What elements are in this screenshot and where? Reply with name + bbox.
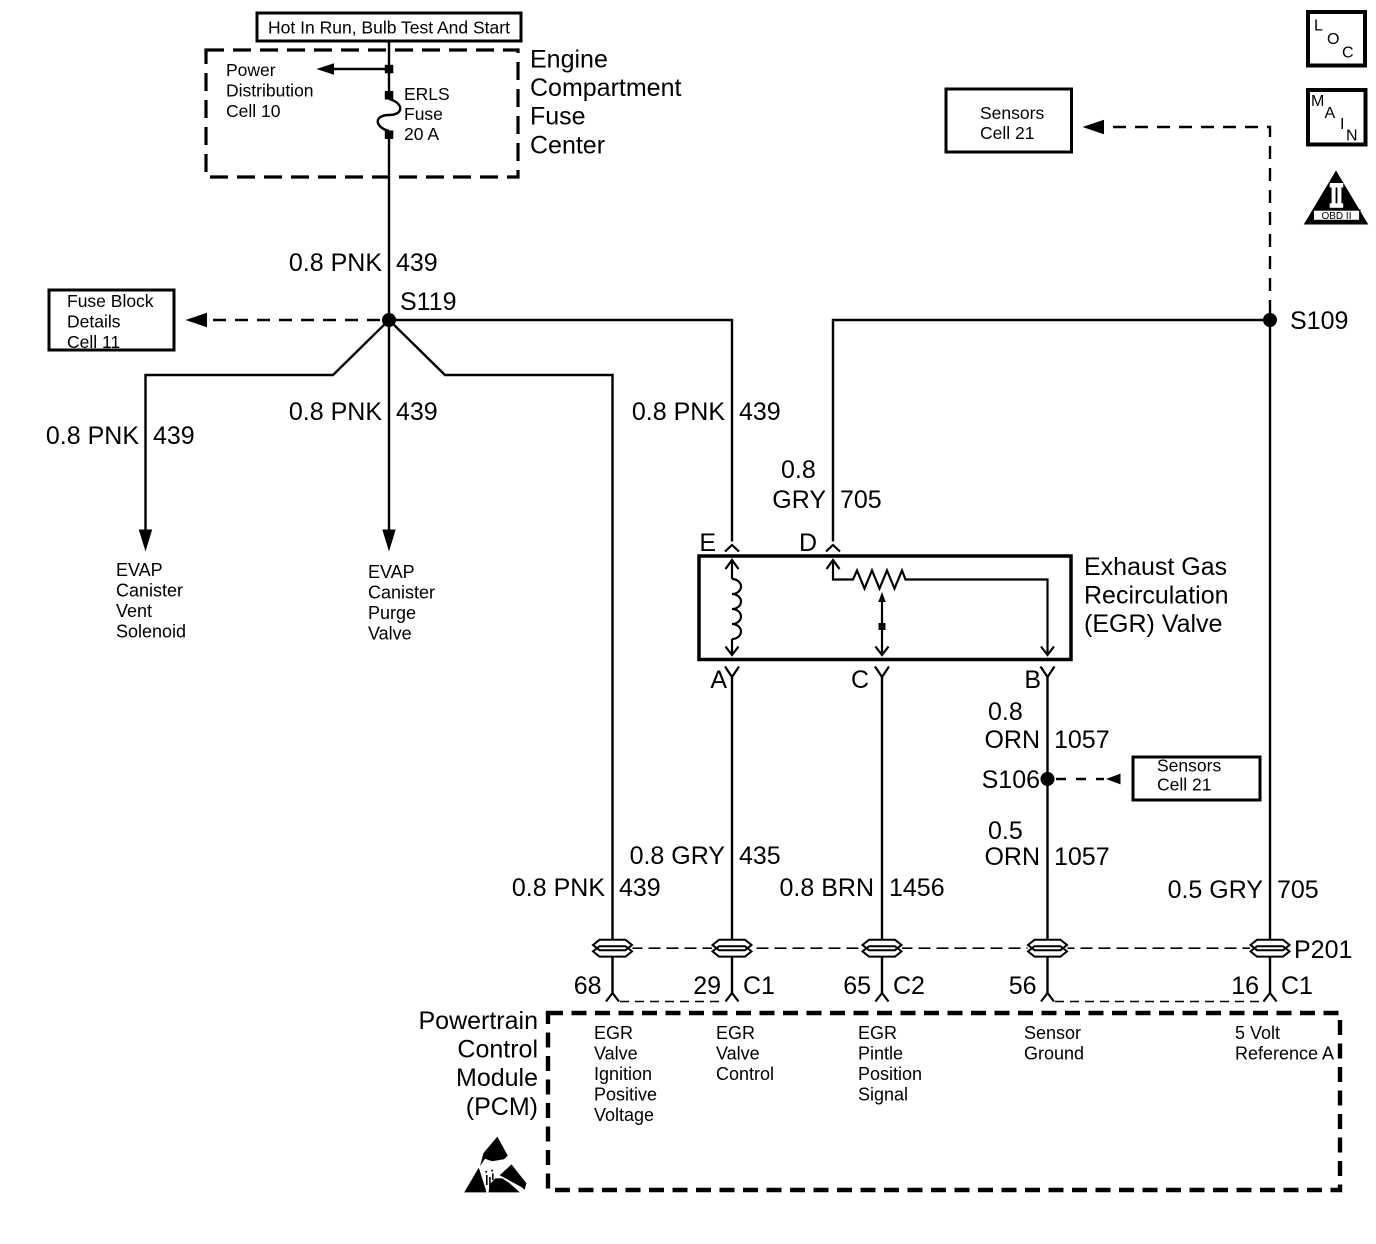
potentiometer pin D to B	[827, 560, 1055, 655]
wire label 0.8 PNK 439 (pin E wire)	[632, 398, 781, 426]
svg-text:0.5: 0.5	[988, 817, 1023, 845]
node S109	[1263, 307, 1348, 335]
wire label 0.8 GRY 435	[630, 842, 781, 870]
svg-text:EVAPCanisterVentSolenoid: EVAPCanisterVentSolenoid	[116, 560, 186, 642]
svg-text:ERLSFuse20 A: ERLSFuse20 A	[404, 84, 450, 144]
svg-text:S119: S119	[400, 288, 457, 316]
LOC symbol	[1308, 12, 1365, 66]
node S106	[982, 766, 1055, 794]
svg-text:29: 29	[693, 972, 721, 1000]
dashed reference arrow S106 to sensors cell 21	[1056, 774, 1121, 785]
wire label 0.8 PNK 439 (above S119)	[289, 249, 438, 277]
EGR valve box	[699, 556, 1071, 660]
wire EGR B to PCM pin 56	[1046, 677, 1048, 993]
svg-text:439: 439	[396, 398, 438, 426]
svg-text:439: 439	[739, 398, 781, 426]
svg-text:A: A	[1325, 105, 1336, 122]
svg-text:439: 439	[153, 422, 195, 450]
EGR pin E connector chevron	[725, 545, 739, 552]
svg-text:D: D	[799, 529, 817, 557]
wire S109 to EGR pin D	[833, 320, 1270, 542]
wire S119 to EGR pin E	[389, 320, 732, 542]
fuse block details cell 11 box	[49, 290, 174, 352]
svg-text:0.8 PNK: 0.8 PNK	[289, 398, 382, 426]
svg-text:S109: S109	[1290, 307, 1348, 335]
wire label 0.8 PNK 439 (below S119)	[289, 398, 438, 426]
svg-text:0.8 PNK: 0.8 PNK	[46, 422, 139, 450]
P201 grommet pin 56	[1028, 940, 1068, 957]
svg-text:0.8 PNK: 0.8 PNK	[632, 398, 725, 426]
svg-text:439: 439	[619, 874, 661, 902]
svg-text:Fuse BlockDetailsCell 11: Fuse BlockDetailsCell 11	[67, 291, 154, 352]
svg-text:B: B	[1024, 666, 1041, 694]
PCM pin 68 chevron	[606, 993, 619, 1002]
svg-text:EngineCompartmentFuseCenter: EngineCompartmentFuseCenter	[530, 46, 681, 160]
svg-text:705: 705	[840, 486, 882, 514]
EGR pin A connector Y	[725, 667, 739, 678]
EGR pin D connector chevron	[826, 545, 840, 552]
svg-text:SensorsCell 21: SensorsCell 21	[980, 103, 1044, 143]
hot feed label box	[257, 13, 521, 41]
svg-text:M: M	[1311, 93, 1324, 110]
svg-text:EVAPCanisterPurgeValve: EVAPCanisterPurgeValve	[368, 562, 435, 644]
svg-text:Exhaust GasRecirculation(EGR): Exhaust GasRecirculation(EGR) Valve	[1084, 553, 1229, 638]
P201 grommet pin 65	[862, 940, 902, 957]
svg-text:0.8: 0.8	[988, 698, 1023, 726]
P201 connector dashed tie line	[613, 947, 1271, 949]
svg-text:0.8 PNK: 0.8 PNK	[512, 874, 605, 902]
svg-text:435: 435	[739, 842, 781, 870]
engine compartment fuse center dashed box	[206, 50, 518, 177]
wire label 0.8 PNK 439 (pin 68 branch)	[512, 874, 661, 902]
sensors cell 21 box (lower)	[1133, 756, 1260, 801]
wire label 0.8 PNK 439 (left branch)	[46, 422, 195, 450]
wire S109 down to PCM pin 16	[1269, 320, 1271, 993]
fuse ERLS 20A	[378, 91, 401, 139]
PCM dashed box	[548, 1013, 1340, 1190]
svg-text:SensorGround: SensorGround	[1024, 1023, 1084, 1064]
svg-text:OBD II: OBD II	[1321, 211, 1351, 222]
svg-text:0.8: 0.8	[781, 456, 816, 484]
PCM pin 56 chevron	[1041, 993, 1054, 1002]
wire S119 down to EVAP purge valve	[382, 320, 395, 552]
dashed reference arrow S119 to fuse block details	[186, 313, 381, 328]
wire from hot feed into fuse box	[388, 41, 390, 91]
wire S119 branch to EVAP vent solenoid	[139, 320, 389, 552]
wire EGR C to PCM pin 65	[881, 677, 883, 993]
wire label 0.5 ORN 1057	[984, 817, 1109, 871]
solenoid winding pin E to A	[726, 560, 742, 655]
svg-text:GRY: GRY	[772, 486, 826, 514]
pintle position wiper pin C	[876, 592, 889, 655]
svg-text:C: C	[851, 666, 869, 694]
dashed tie pin 56 to 16 (connector C1)	[1055, 1001, 1262, 1003]
svg-text:68: 68	[574, 972, 602, 1000]
svg-text:S106: S106	[982, 766, 1040, 794]
svg-text:439: 439	[396, 249, 438, 277]
svg-text:0.5 GRY: 0.5 GRY	[1168, 876, 1264, 904]
OBD II symbol	[1304, 171, 1369, 225]
svg-text:ORN: ORN	[984, 843, 1040, 871]
node S119	[382, 288, 457, 327]
svg-text:P201: P201	[1294, 936, 1352, 964]
svg-text:I: I	[1340, 116, 1344, 133]
dashed reference wire S109 to sensors cell 21	[1083, 120, 1271, 313]
svg-text:16: 16	[1231, 972, 1259, 1000]
svg-text:56: 56	[1009, 972, 1037, 1000]
P201 grommet pin 29	[712, 940, 752, 957]
wire fuse to S119	[388, 139, 390, 320]
svg-text:C1: C1	[743, 972, 775, 1000]
svg-text:EGRValveIgnitionPositiveVoltag: EGRValveIgnitionPositiveVoltage	[594, 1023, 657, 1125]
svg-text:C1: C1	[1281, 972, 1313, 1000]
svg-text:PowerDistributionCell 10: PowerDistributionCell 10	[226, 60, 314, 121]
PCM pin 16 chevron	[1264, 993, 1277, 1002]
svg-text:705: 705	[1277, 876, 1319, 904]
svg-text:E: E	[699, 529, 716, 557]
svg-text:A: A	[710, 666, 727, 694]
svg-text:EGRValveControl: EGRValveControl	[716, 1023, 774, 1084]
wire label 0.8 BRN 1456	[780, 874, 945, 902]
svg-text:0.8 PNK: 0.8 PNK	[289, 249, 382, 277]
sensors cell 21 box (top)	[946, 89, 1072, 152]
svg-text:65: 65	[843, 972, 871, 1000]
svg-text:N: N	[1346, 128, 1358, 145]
svg-text:C: C	[1342, 45, 1354, 62]
svg-text:L: L	[1314, 18, 1323, 35]
svg-text:PowertrainControlModule(PCM): PowertrainControlModule(PCM)	[419, 1007, 539, 1121]
MAIN symbol	[1308, 90, 1366, 145]
svg-text:1057: 1057	[1054, 726, 1110, 754]
EGR pin C connector Y	[875, 667, 889, 678]
svg-text:0.8 GRY: 0.8 GRY	[630, 842, 726, 870]
svg-text:ORN: ORN	[984, 726, 1040, 754]
svg-text:C2: C2	[893, 972, 925, 1000]
arrow to power distribution	[317, 63, 394, 74]
wire label 0.5 GRY 705	[1168, 876, 1319, 904]
svg-text:EGRPintlePositionSignal: EGRPintlePositionSignal	[858, 1023, 922, 1105]
wire EGR A to PCM pin 29	[731, 677, 733, 993]
dashed tie pin 68 to 29 (connector C1)	[620, 1001, 722, 1003]
PCM pin 65 chevron	[876, 993, 889, 1002]
wire label 0.8 ORN 1057	[984, 698, 1109, 754]
P201 grommet pin 16	[1250, 940, 1290, 957]
svg-text:1057: 1057	[1054, 843, 1110, 871]
P201 grommet pin 68	[593, 940, 633, 957]
svg-text:O: O	[1327, 31, 1339, 48]
wire label 0.8 GRY 705	[772, 456, 881, 514]
wire S119 branch to PCM pin 68	[389, 320, 613, 993]
ESD sensitive device symbol	[464, 1137, 526, 1193]
svg-text:SensorsCell 21: SensorsCell 21	[1157, 756, 1221, 795]
svg-text:0.8 BRN: 0.8 BRN	[780, 874, 874, 902]
PCM pin 29 chevron	[726, 993, 739, 1002]
svg-text:Hot In Run, Bulb Test And Star: Hot In Run, Bulb Test And Start	[268, 18, 510, 38]
svg-text:5 VoltReference A: 5 VoltReference A	[1235, 1023, 1334, 1064]
svg-text:1456: 1456	[889, 874, 945, 902]
EGR pin B connector Y	[1041, 667, 1055, 678]
